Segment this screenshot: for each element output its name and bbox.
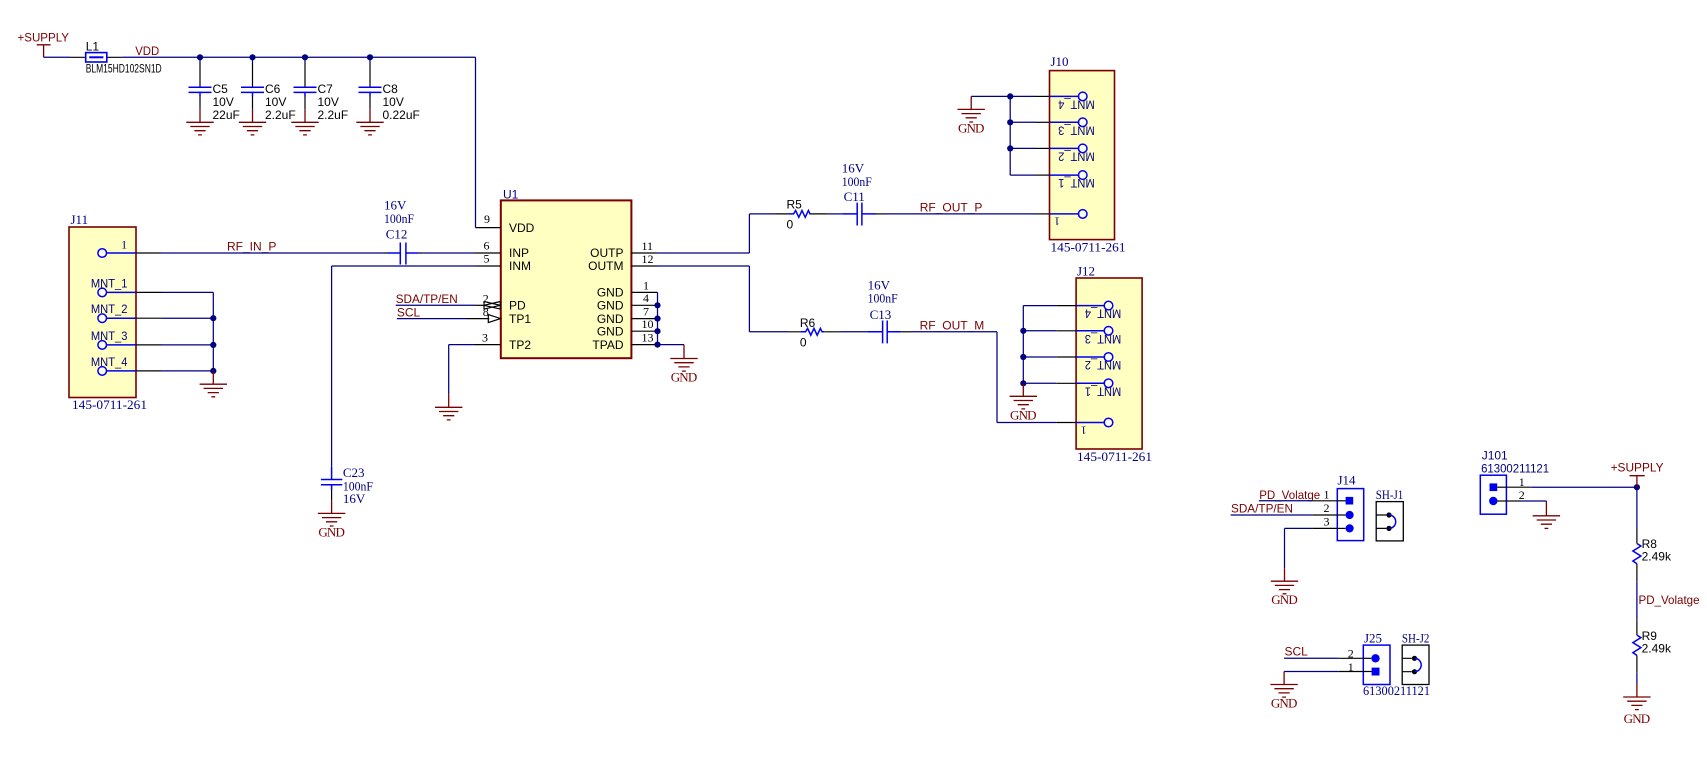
wire OUTM to R6: [749, 331, 788, 333]
svg-text:MNT_1: MNT_1: [1058, 176, 1095, 190]
wire TPAD to ground: [658, 344, 685, 346]
connector J12 145-0711-261: [1076, 264, 1152, 465]
U1 pin names left: [509, 221, 535, 352]
connector J14: [1337, 472, 1363, 540]
junction J10 MNT_3: [1007, 119, 1013, 125]
U1 pin 12: [631, 252, 657, 266]
junction J10 MNT_2: [1007, 145, 1013, 151]
U1 pin 6 INP: [475, 238, 501, 253]
svg-text:C6: C6: [265, 82, 281, 96]
svg-text:13: 13: [642, 330, 654, 344]
svg-text:2.49k: 2.49k: [1642, 550, 1672, 564]
U1 pin 3 TP2: [475, 330, 501, 344]
svg-text:100nF: 100nF: [384, 211, 414, 226]
svg-text:MNT_3: MNT_3: [91, 329, 128, 343]
capacitor C13 100nF: [868, 277, 911, 343]
wire R9 to ground: [1636, 655, 1638, 672]
svg-text:MNT_4: MNT_4: [1085, 307, 1122, 321]
ground below C5: [186, 109, 213, 135]
svg-text:TP2: TP2: [509, 338, 531, 352]
svg-text:J10: J10: [1051, 54, 1069, 69]
J10 pin MNT_2: [1010, 144, 1094, 163]
ground J14: [1271, 568, 1298, 607]
wire R5 to C11: [828, 213, 842, 215]
J25 pin 2: [1348, 647, 1380, 663]
svg-text:10V: 10V: [213, 95, 234, 109]
svg-text:MNT_2: MNT_2: [1085, 358, 1122, 372]
svg-text:C12: C12: [386, 226, 408, 241]
svg-text:OUTM: OUTM: [588, 259, 623, 273]
svg-text:VDD: VDD: [509, 221, 535, 235]
svg-text:GND: GND: [597, 286, 624, 300]
svg-text:GND: GND: [1271, 592, 1298, 607]
svg-text:145-0711-261: 145-0711-261: [1051, 240, 1126, 255]
svg-text:R5: R5: [787, 197, 803, 211]
svg-text:3: 3: [482, 330, 488, 344]
connector J11 145-0711-261: [69, 212, 147, 412]
wire pin3 down: [1284, 528, 1286, 568]
svg-text:MNT_3: MNT_3: [1058, 123, 1095, 137]
svg-text:1: 1: [1081, 423, 1087, 437]
svg-text:GND: GND: [671, 370, 698, 385]
svg-text:16V: 16V: [343, 491, 366, 506]
svg-text:10V: 10V: [265, 95, 286, 109]
ground J12: [1010, 383, 1037, 422]
junction +SUPPLY/R8: [1634, 484, 1640, 490]
ground J101 pin2: [1533, 503, 1560, 529]
svg-text:C5: C5: [213, 82, 229, 96]
resistor R6 0: [789, 316, 841, 349]
J14 pin 2: [1324, 501, 1354, 519]
junction J12 MNT_3: [1020, 328, 1026, 334]
svg-text:2: 2: [483, 291, 489, 305]
J12 pin MNT_1: [1023, 379, 1121, 398]
junction VDD/C7: [302, 54, 308, 60]
svg-text:MNT_4: MNT_4: [1058, 97, 1095, 111]
svg-text:OUTP: OUTP: [590, 246, 623, 260]
wire R8 to R9, net PD_Volatge: [1636, 564, 1638, 635]
wire C12 to U1 INP: [423, 252, 475, 254]
jumper shunt SH-J1: [1376, 487, 1404, 541]
wire RF_OUT_M to J12: [997, 422, 1056, 424]
svg-text:MNT_1: MNT_1: [1085, 384, 1122, 398]
U1 pin 9 VDD: [476, 212, 501, 228]
wire J12 MNT bus: [1022, 306, 1024, 384]
capacitor C5 22uF: [189, 63, 240, 122]
svg-text:0: 0: [800, 335, 807, 349]
J11 pin MNT_2: [91, 302, 213, 322]
svg-text:RF_OUT_P: RF_OUT_P: [920, 200, 983, 214]
svg-text:SH-J2: SH-J2: [1402, 630, 1430, 645]
wire VDD rail drop to U1 pin 9: [475, 57, 477, 227]
ground C23: [318, 500, 345, 539]
wire J10 MNT bus: [1009, 96, 1011, 175]
wire to supply junction: [1531, 486, 1637, 488]
capacitor C6 2.2uF: [241, 63, 296, 122]
junction MNT_3: [210, 342, 216, 348]
U1 pin 2 PD input arrows: [475, 291, 500, 309]
junction GND pin 7: [654, 316, 660, 322]
J101 pin 1: [1490, 475, 1525, 491]
svg-text:9: 9: [484, 212, 490, 226]
wire J10 to ground: [971, 95, 1010, 97]
wire VDD to C5: [199, 57, 201, 63]
svg-text:C13: C13: [870, 307, 892, 322]
svg-text:145-0711-261: 145-0711-261: [72, 397, 147, 412]
junction VDD/C8: [367, 54, 373, 60]
svg-text:61300211121: 61300211121: [1481, 461, 1549, 475]
wire R6 to C13: [840, 331, 868, 333]
capacitor C7 2.2uF: [294, 63, 349, 122]
svg-text:1: 1: [1054, 215, 1060, 229]
svg-text:J11: J11: [71, 212, 89, 227]
U1 pin names right: [588, 246, 624, 352]
svg-text:5: 5: [484, 252, 490, 266]
wire J14 pin 3 to ground: [1312, 527, 1337, 529]
connector J25 61300211121: [1363, 630, 1430, 698]
svg-text:INM: INM: [509, 259, 531, 273]
wire OUTP up: [748, 214, 750, 253]
svg-text:R6: R6: [800, 316, 816, 330]
svg-text:2.49k: 2.49k: [1642, 642, 1672, 656]
wire OUTP to R5: [749, 213, 775, 215]
svg-text:100nF: 100nF: [868, 291, 898, 306]
U1 pin 11: [631, 239, 657, 253]
junction MNT_2: [210, 315, 216, 321]
junction GND pin 10: [654, 328, 660, 334]
wire J101 pin2 to ground: [1506, 500, 1522, 502]
svg-text:2: 2: [1324, 501, 1330, 515]
svg-text:0: 0: [787, 218, 794, 232]
svg-text:GND: GND: [318, 524, 345, 539]
svg-text:SDA/TP/EN: SDA/TP/EN: [396, 292, 458, 306]
ground below C8: [356, 109, 383, 135]
svg-text:4: 4: [643, 291, 649, 305]
capacitor C11 100nF: [842, 161, 886, 226]
svg-text:U1: U1: [503, 187, 519, 201]
wire J25 pin 1 to ground: [1338, 671, 1363, 673]
svg-text:SCL: SCL: [1285, 644, 1309, 658]
junction GND pin 13: [654, 342, 660, 348]
wire U1 GND bus: [657, 292, 659, 344]
junction J12 MNT_1: [1020, 380, 1026, 386]
wire SCL to J25: [1284, 657, 1338, 659]
U1 pin 8 TP1 input arrow: [467, 305, 501, 323]
wire INM: [332, 265, 475, 267]
wire RF_OUT_P: [886, 213, 1036, 215]
svg-text:10V: 10V: [318, 95, 339, 109]
J10 pin MNT_4: [1010, 92, 1094, 111]
svg-text:VDD: VDD: [135, 44, 159, 58]
wire SDA/TP/EN to J14: [1231, 514, 1313, 516]
J10 pin 1: [1050, 210, 1087, 229]
capacitor C23 100nF 16V: [321, 465, 373, 506]
J12 pin 1 lead: [1056, 422, 1076, 424]
capacitor C8 0.22uF: [359, 63, 420, 122]
svg-text:10: 10: [642, 317, 654, 331]
J25 pin 1: [1348, 660, 1380, 676]
capacitor C12 100nF: [384, 197, 423, 264]
wire pin3: [1285, 527, 1313, 529]
svg-text:J14: J14: [1338, 472, 1357, 487]
J12 pin MNT_4: [1023, 301, 1121, 320]
power symbol +SUPPLY (right): [1611, 461, 1664, 488]
connector J10 145-0711-261: [1050, 54, 1126, 255]
svg-text:1: 1: [121, 238, 127, 252]
wire VDD rail: [122, 56, 475, 58]
wire J101 pin1 to +SUPPLY: [1506, 486, 1531, 488]
svg-text:MNT_3: MNT_3: [1085, 332, 1122, 346]
svg-text:6: 6: [484, 238, 490, 252]
junction GND pin 4: [654, 302, 660, 308]
resistor R5 0: [776, 197, 828, 231]
svg-text:L1: L1: [86, 40, 100, 54]
wire +SUPPLY to L1: [44, 56, 70, 58]
wire VDD to C7: [304, 57, 306, 63]
U1 pin 10: [631, 317, 657, 331]
junction J10 GND: [1007, 93, 1013, 99]
svg-text:0.22uF: 0.22uF: [383, 108, 420, 122]
wire VDD to C8: [369, 57, 371, 63]
svg-text:PD_Volatge: PD_Volatge: [1259, 488, 1320, 502]
svg-text:8: 8: [483, 305, 489, 319]
svg-text:SH-J1: SH-J1: [1376, 487, 1404, 502]
svg-text:J25: J25: [1364, 630, 1382, 645]
wire SDA/TP/EN: [396, 304, 475, 306]
svg-text:2: 2: [1519, 488, 1525, 502]
J11 pin MNT_3: [91, 329, 213, 349]
wire RF_IN_P: [161, 252, 384, 254]
J10 pin MNT_3: [1010, 118, 1094, 137]
svg-text:PD_Volatge: PD_Volatge: [1639, 593, 1700, 607]
svg-text:GND: GND: [1271, 696, 1298, 711]
svg-text:10V: 10V: [383, 95, 404, 109]
wire TP2 down: [448, 345, 450, 395]
U1 pin 5 INM: [475, 252, 501, 266]
connector J101 61300211121: [1480, 448, 1549, 514]
wire PD_Volatge: [1259, 500, 1312, 502]
wire J11 MNT bus: [212, 292, 214, 371]
svg-text:MNT_1: MNT_1: [91, 276, 128, 290]
svg-text:PD: PD: [509, 299, 526, 313]
wire OUTM down: [748, 266, 750, 332]
svg-text:22uF: 22uF: [213, 108, 240, 122]
ground U1: [670, 345, 697, 385]
ground below C6: [239, 109, 266, 135]
wire OUTP: [658, 252, 750, 254]
J101 pin 2: [1489, 488, 1525, 505]
J11 pin MNT_1: [91, 276, 213, 296]
J12 pin MNT_2: [1023, 353, 1121, 372]
svg-text:GND: GND: [597, 324, 624, 338]
svg-text:145-0711-261: 145-0711-261: [1077, 449, 1152, 464]
svg-text:12: 12: [642, 252, 654, 266]
svg-text:C11: C11: [844, 189, 865, 204]
ground below C7: [291, 109, 318, 135]
J10 pin MNT_1: [1010, 171, 1094, 190]
svg-text:C7: C7: [318, 82, 334, 96]
power symbol +SUPPLY (top left): [18, 31, 70, 58]
svg-text:GND: GND: [958, 120, 985, 135]
op-amp U1 (IC body): [501, 187, 632, 358]
wire VDD to C6: [252, 57, 254, 63]
wire INM down to C23: [331, 266, 333, 467]
J11 pin MNT_4: [91, 355, 213, 375]
svg-text:+SUPPLY: +SUPPLY: [18, 31, 70, 45]
svg-text:3: 3: [1324, 515, 1330, 529]
svg-text:GND: GND: [597, 299, 624, 313]
resistor R9 2.49k: [1633, 629, 1672, 656]
wire pin1: [1284, 671, 1338, 673]
svg-text:GND: GND: [1010, 407, 1037, 422]
svg-text:INP: INP: [509, 246, 529, 260]
ground J25: [1270, 672, 1297, 711]
svg-text:TP1: TP1: [509, 312, 531, 326]
svg-text:BLM15HD102SN1D: BLM15HD102SN1D: [86, 62, 162, 76]
svg-text:GND: GND: [1624, 711, 1651, 726]
U1 pin 7: [631, 304, 657, 318]
wire RF_OUT_M down: [996, 332, 998, 423]
svg-text:J12: J12: [1077, 264, 1095, 279]
svg-text:MNT_4: MNT_4: [91, 355, 128, 369]
svg-text:1: 1: [1324, 488, 1330, 502]
junction J12 MNT_2: [1020, 354, 1026, 360]
junction VDD/C6: [249, 54, 255, 60]
svg-text:61300211121: 61300211121: [1363, 683, 1430, 698]
J14 pin 3: [1324, 515, 1354, 533]
svg-text:MNT_2: MNT_2: [1058, 150, 1095, 164]
svg-text:SDA/TP/EN: SDA/TP/EN: [1231, 502, 1293, 516]
J12 pin MNT_3: [1023, 327, 1121, 346]
U1 pin 13: [631, 330, 657, 344]
J14 pin 1: [1324, 488, 1354, 505]
wire OUTM: [658, 265, 750, 267]
wire RF_OUT_M: [911, 331, 997, 333]
J11 pin 1: [98, 238, 161, 258]
junction MNT_4: [210, 368, 216, 374]
J10 pin 1 lead: [1036, 213, 1050, 215]
wire TP2: [449, 344, 475, 346]
jumper shunt SH-J2: [1402, 630, 1430, 684]
svg-text:2.2uF: 2.2uF: [318, 108, 349, 122]
svg-text:J101: J101: [1482, 448, 1508, 462]
ground J10: [958, 96, 985, 135]
svg-text:RF_IN_P: RF_IN_P: [227, 240, 276, 254]
U1 pin 1: [631, 278, 657, 292]
svg-text:RF_OUT_M: RF_OUT_M: [920, 318, 985, 332]
J12 pin 1: [1076, 418, 1113, 437]
svg-text:100nF: 100nF: [842, 174, 872, 189]
ferrite bead L1 BLM15HD102SN1D: [70, 40, 162, 76]
ground R9: [1623, 684, 1650, 726]
ground TP2: [435, 394, 462, 420]
wire SCL: [397, 318, 467, 320]
junction VDD/C5: [197, 54, 203, 60]
svg-text:SCL: SCL: [397, 305, 421, 319]
svg-text:C8: C8: [383, 82, 399, 96]
svg-text:+SUPPLY: +SUPPLY: [1611, 461, 1664, 475]
resistor R8 2.49k: [1633, 487, 1672, 564]
U1 pin 4: [631, 291, 657, 305]
wire pin2: [1522, 501, 1546, 503]
svg-text:MNT_2: MNT_2: [91, 302, 128, 316]
svg-text:TPAD: TPAD: [592, 338, 623, 352]
ground J11: [200, 371, 227, 397]
svg-text:2.2uF: 2.2uF: [265, 108, 296, 122]
